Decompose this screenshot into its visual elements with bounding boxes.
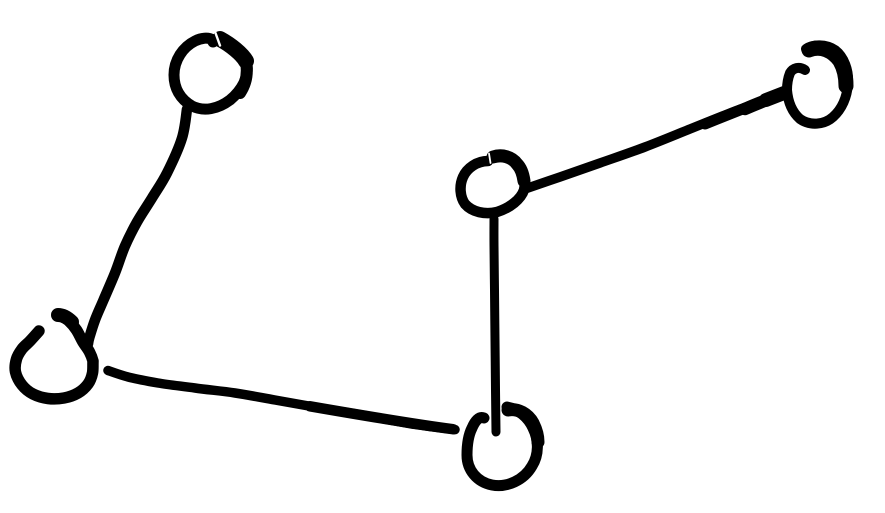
- edge D-C (diagonal wire up-right): [525, 93, 784, 189]
- node B (left circle, drawn from hook head down right side, round to open cap): [15, 315, 93, 399]
- edge B-E (long bottom wire): [108, 371, 455, 430]
- node C (top-right circle with curl): [787, 45, 848, 123]
- node A (top-left circle): [174, 33, 247, 109]
- edge E-D (vertical wire): [494, 219, 496, 432]
- node D (center circle): [461, 154, 525, 214]
- node E (bottom-center circle): [467, 407, 538, 486]
- edge A-B (wire from top-left node to left node): [88, 109, 187, 344]
